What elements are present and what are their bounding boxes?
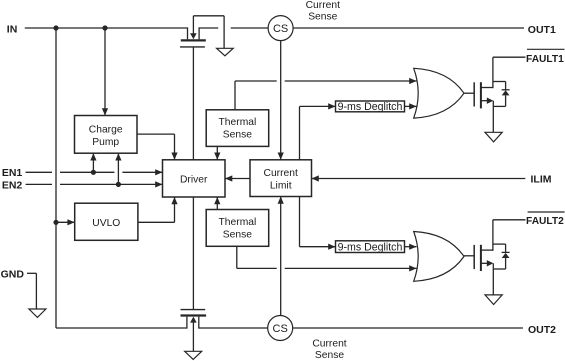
svg-text:ILIM: ILIM	[531, 174, 552, 186]
svg-text:Charge: Charge	[89, 124, 123, 135]
svg-text:EN2: EN2	[2, 179, 23, 191]
svg-text:Current: Current	[264, 168, 298, 179]
svg-text:9-ms Deglitch: 9-ms Deglitch	[338, 241, 403, 253]
svg-text:Sense: Sense	[223, 230, 252, 241]
svg-text:GND: GND	[1, 268, 25, 280]
svg-text:IN: IN	[7, 23, 18, 35]
svg-text:Sense: Sense	[223, 130, 252, 141]
svg-text:Limit: Limit	[270, 181, 292, 192]
svg-text:9-ms Deglitch: 9-ms Deglitch	[338, 101, 403, 113]
svg-text:Thermal: Thermal	[219, 117, 257, 128]
svg-text:Driver: Driver	[180, 175, 208, 186]
svg-text:Pump: Pump	[92, 137, 119, 148]
svg-text:Thermal: Thermal	[219, 217, 257, 228]
svg-text:FAULT2: FAULT2	[526, 216, 564, 227]
svg-text:OUT1: OUT1	[528, 24, 556, 36]
svg-text:Current: Current	[312, 338, 346, 349]
svg-text:EN1: EN1	[2, 167, 23, 179]
svg-text:Sense: Sense	[315, 350, 344, 361]
svg-text:Sense: Sense	[308, 11, 337, 22]
svg-text:CS: CS	[273, 323, 288, 335]
svg-text:UVLO: UVLO	[92, 218, 120, 229]
svg-text:CS: CS	[273, 23, 288, 35]
svg-text:FAULT1: FAULT1	[526, 54, 564, 65]
svg-text:Current: Current	[306, 0, 340, 11]
svg-text:OUT2: OUT2	[528, 324, 556, 336]
